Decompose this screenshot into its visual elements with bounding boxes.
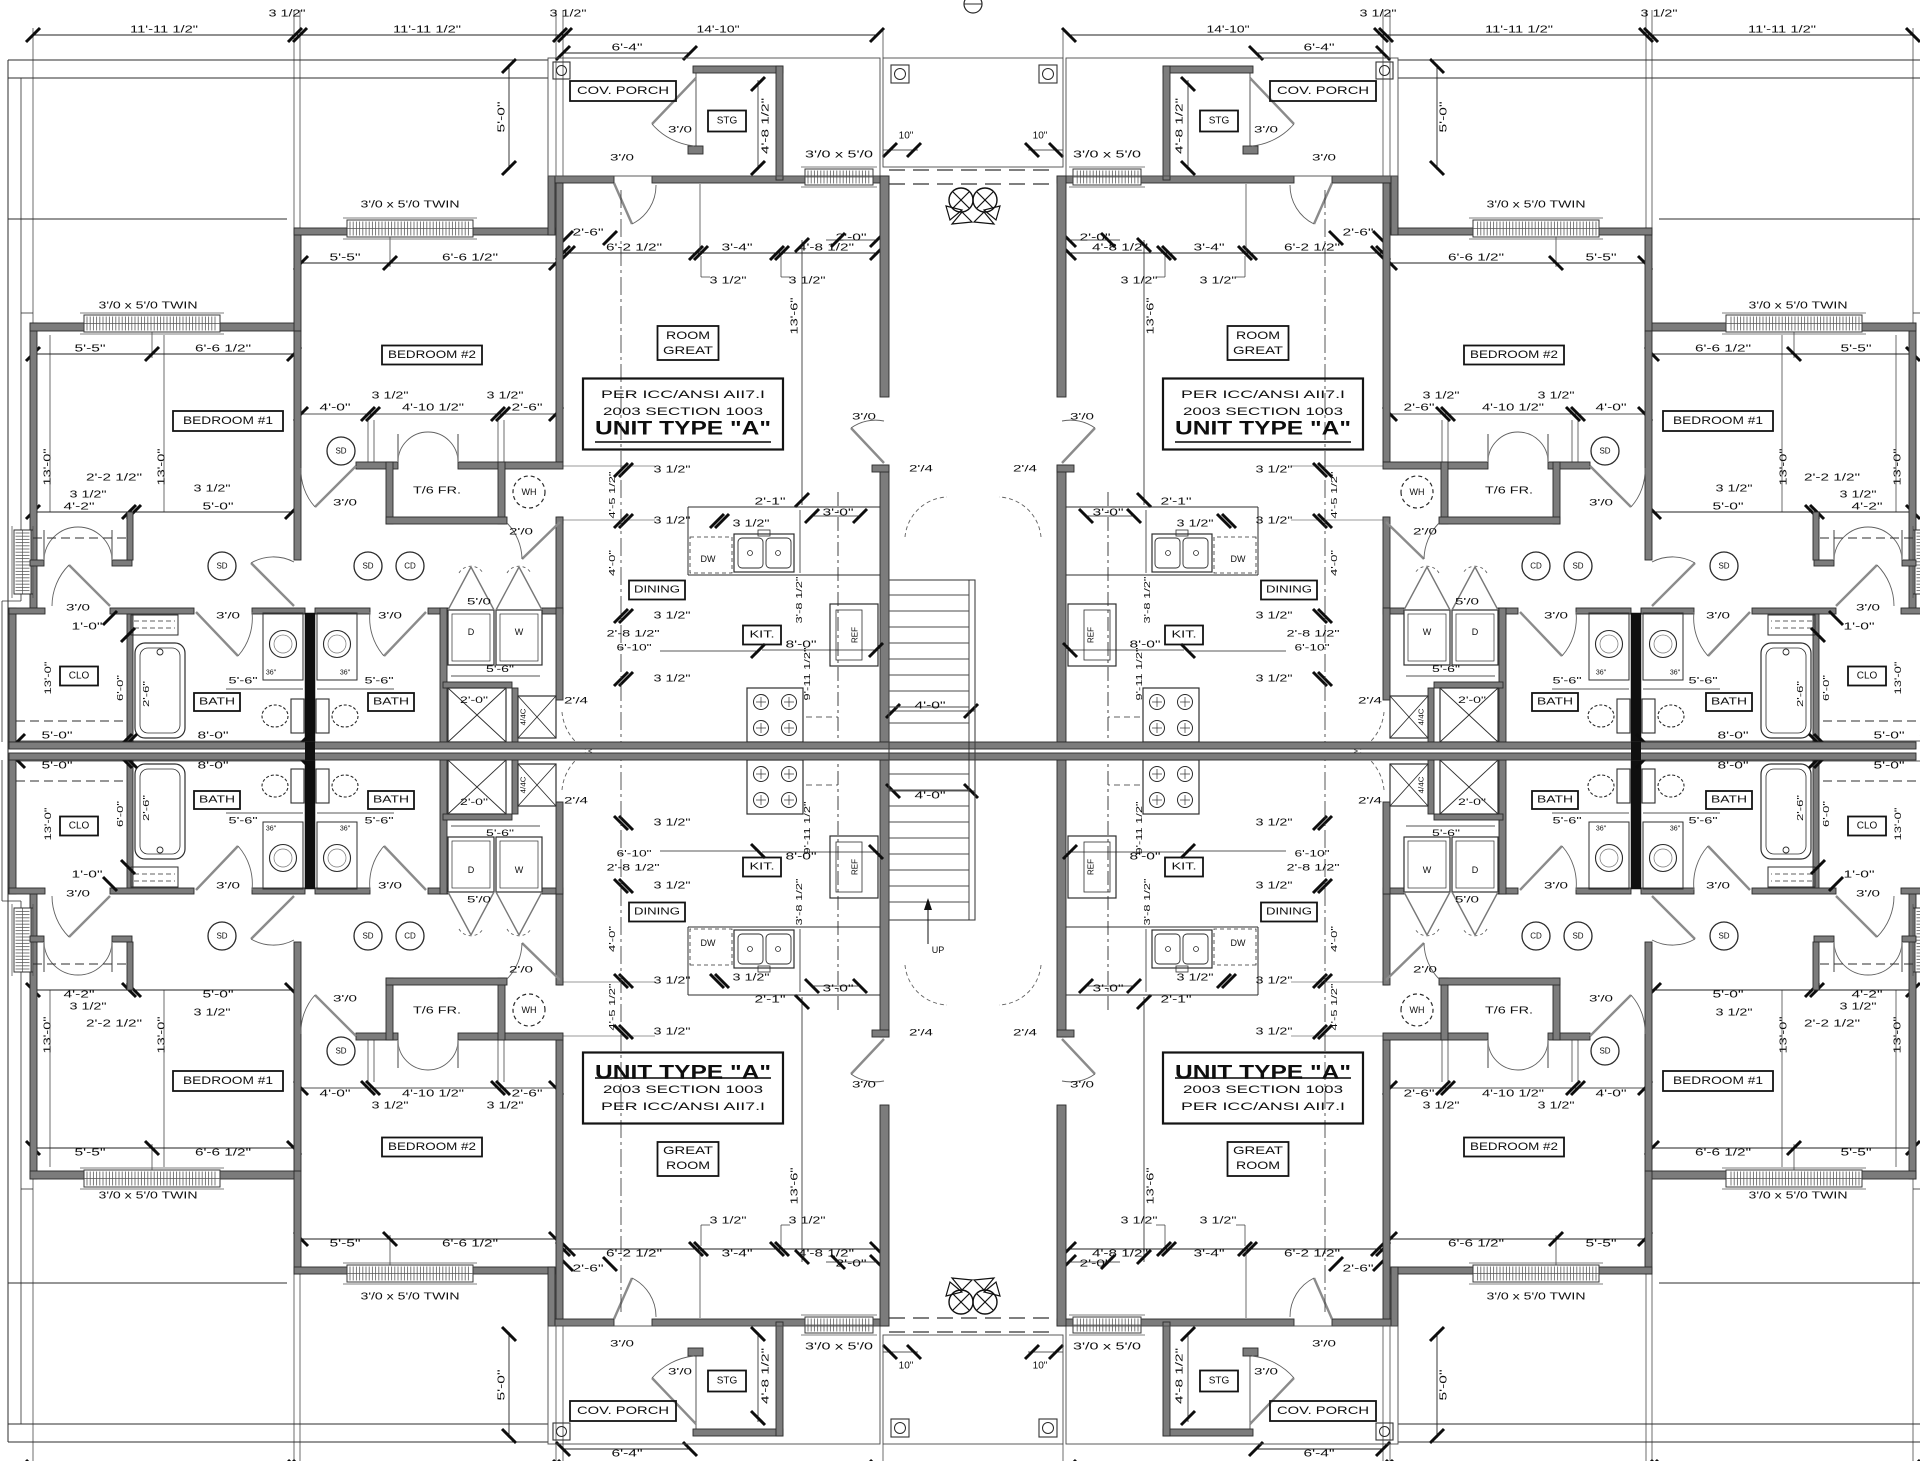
svg-text:GREAT: GREAT: [663, 345, 713, 357]
svg-text:2003 SECTION 1003: 2003 SECTION 1003: [1183, 1084, 1343, 1096]
svg-text:13'-0": 13'-0": [43, 808, 53, 841]
svg-text:3 1/2": 3 1/2": [654, 516, 692, 527]
svg-text:DW: DW: [701, 938, 716, 948]
svg-text:BATH: BATH: [373, 697, 409, 708]
svg-text:WH: WH: [1410, 487, 1425, 497]
svg-text:DINING: DINING: [634, 585, 680, 596]
svg-text:4'-5 1/2": 4'-5 1/2": [1329, 984, 1339, 1031]
svg-text:4'-8 1/2": 4'-8 1/2": [1175, 97, 1186, 154]
svg-text:2'-0": 2'-0": [460, 797, 488, 807]
svg-text:5'-6": 5'-6": [486, 828, 514, 838]
svg-text:3 1/2": 3 1/2": [1256, 976, 1294, 987]
svg-text:5'-5": 5'-5": [1586, 1239, 1618, 1250]
svg-text:3 1/2": 3 1/2": [194, 484, 232, 495]
svg-text:3'/0: 3'/0: [216, 881, 240, 892]
svg-text:3 1/2": 3 1/2": [1256, 516, 1294, 527]
svg-text:SD: SD: [362, 562, 373, 571]
svg-text:5'-5": 5'-5": [1841, 1148, 1873, 1159]
svg-text:3'/0: 3'/0: [852, 1080, 876, 1091]
svg-text:2'-6": 2'-6": [1343, 228, 1375, 239]
svg-text:5'-6": 5'-6": [486, 664, 514, 674]
svg-text:3'-0": 3'-0": [823, 984, 855, 995]
svg-text:8'-0": 8'-0": [1718, 761, 1750, 772]
svg-text:3 1/2": 3 1/2": [1256, 674, 1294, 685]
svg-text:3 1/2": 3 1/2": [487, 391, 525, 402]
svg-text:ROOM: ROOM: [1236, 330, 1280, 342]
svg-text:3 1/2": 3 1/2": [1840, 490, 1878, 501]
svg-text:BEDROOM #2: BEDROOM #2: [1470, 349, 1558, 361]
svg-text:36": 36": [266, 826, 277, 833]
svg-text:11'-11 1/2": 11'-11 1/2": [1485, 25, 1554, 36]
svg-text:5'-0": 5'-0": [203, 502, 235, 513]
svg-text:SD: SD: [216, 932, 227, 941]
svg-text:3'/0: 3'/0: [852, 412, 876, 423]
svg-text:36": 36": [1670, 670, 1681, 677]
svg-text:2'-0": 2'-0": [1458, 695, 1486, 705]
svg-text:CLO: CLO: [69, 821, 90, 832]
svg-text:4'-0": 4'-0": [607, 550, 617, 576]
svg-text:36": 36": [340, 826, 351, 833]
svg-text:BATH: BATH: [1537, 697, 1573, 708]
svg-text:2'-0": 2'-0": [1080, 1259, 1112, 1270]
svg-text:3 1/2": 3 1/2": [372, 1101, 410, 1112]
svg-text:4'-8 1/2": 4'-8 1/2": [1175, 1347, 1186, 1404]
svg-text:13'-0": 13'-0": [157, 448, 168, 486]
svg-text:BEDROOM #1: BEDROOM #1: [1673, 1075, 1763, 1087]
svg-text:5'-5": 5'-5": [330, 1239, 362, 1250]
svg-text:3 1/2": 3 1/2": [1840, 1002, 1878, 1013]
svg-text:3 1/2": 3 1/2": [1641, 9, 1679, 20]
svg-text:2'-0": 2'-0": [460, 695, 488, 705]
svg-text:GREAT: GREAT: [1233, 345, 1283, 357]
svg-text:4'-10 1/2": 4'-10 1/2": [402, 403, 465, 414]
svg-text:4'-8 1/2": 4'-8 1/2": [761, 1347, 772, 1404]
svg-text:DINING: DINING: [634, 907, 680, 918]
svg-text:3'-0": 3'-0": [1093, 508, 1125, 519]
svg-text:5'-6": 5'-6": [1553, 816, 1582, 827]
svg-text:3 1/2": 3 1/2": [1423, 1101, 1461, 1112]
svg-text:4'-2": 4'-2": [64, 990, 96, 1001]
svg-text:UNIT TYPE "A": UNIT TYPE "A": [1175, 419, 1351, 440]
svg-text:BATH: BATH: [1711, 697, 1747, 708]
svg-text:WH: WH: [522, 487, 537, 497]
svg-text:6'-4": 6'-4": [612, 43, 644, 54]
svg-text:8'-0": 8'-0": [1130, 852, 1162, 863]
svg-text:2'/0: 2'/0: [1413, 527, 1437, 538]
svg-text:D: D: [1472, 865, 1479, 875]
svg-text:5'-0": 5'-0": [1713, 502, 1745, 513]
svg-text:6'-10": 6'-10": [1295, 643, 1330, 654]
svg-text:4'-5 1/2": 4'-5 1/2": [607, 984, 617, 1031]
svg-text:8'-0": 8'-0": [1718, 731, 1750, 742]
svg-text:4'-0": 4'-0": [915, 701, 947, 712]
svg-text:5'-5": 5'-5": [330, 253, 362, 264]
svg-text:3'/0: 3'/0: [1856, 603, 1880, 614]
svg-text:REF: REF: [1087, 859, 1096, 875]
svg-text:4'-2": 4'-2": [1852, 990, 1884, 1001]
svg-text:13'-0": 13'-0": [1893, 662, 1903, 695]
svg-text:2'-2 1/2": 2'-2 1/2": [86, 1019, 143, 1030]
svg-text:2'/4: 2'/4: [1358, 796, 1382, 807]
svg-text:2'/0: 2'/0: [509, 965, 533, 976]
svg-text:3'/0: 3'/0: [66, 889, 90, 900]
svg-text:W: W: [1423, 627, 1432, 637]
svg-text:5'/0: 5'/0: [1455, 895, 1479, 906]
svg-text:REF: REF: [851, 859, 860, 875]
svg-text:3 1/2": 3 1/2": [487, 1101, 525, 1112]
svg-text:13'-0": 13'-0": [157, 1016, 168, 1054]
svg-text:2'-2 1/2": 2'-2 1/2": [86, 473, 143, 484]
svg-text:3 1/2": 3 1/2": [70, 490, 108, 501]
svg-text:11'-11 1/2": 11'-11 1/2": [1748, 25, 1817, 36]
svg-text:COV. PORCH: COV. PORCH: [577, 1405, 669, 1417]
svg-text:13'-0": 13'-0": [1893, 448, 1904, 486]
svg-text:13'-6": 13'-6": [1146, 297, 1157, 335]
svg-text:10": 10": [1033, 1361, 1048, 1372]
svg-text:4/4C: 4/4C: [521, 777, 528, 794]
svg-text:2'-1": 2'-1": [1161, 995, 1193, 1006]
svg-text:3'/0: 3'/0: [1856, 889, 1880, 900]
svg-text:6'-0": 6'-0": [1821, 675, 1831, 701]
svg-text:3 1/2": 3 1/2": [1200, 1216, 1238, 1227]
svg-text:3'/0: 3'/0: [1589, 498, 1613, 509]
party wall: [9, 742, 1916, 749]
svg-text:DW: DW: [1231, 938, 1246, 948]
svg-text:11'-11 1/2": 11'-11 1/2": [393, 25, 462, 36]
svg-text:4'-5 1/2": 4'-5 1/2": [607, 472, 617, 519]
svg-text:4'-0": 4'-0": [1329, 926, 1339, 952]
svg-text:3'/0: 3'/0: [378, 881, 402, 892]
svg-text:2'-6": 2'-6": [141, 795, 151, 821]
svg-text:5'-6": 5'-6": [1432, 828, 1460, 838]
svg-text:3'/0 x 5'/0: 3'/0 x 5'/0: [805, 1342, 874, 1353]
svg-text:3 1/2": 3 1/2": [1256, 1027, 1294, 1038]
svg-text:6'-0": 6'-0": [115, 801, 125, 827]
svg-text:4'-10 1/2": 4'-10 1/2": [402, 1089, 465, 1100]
svg-text:DW: DW: [1231, 554, 1246, 564]
svg-text:3'/0 x 5'/0 TWIN: 3'/0 x 5'/0 TWIN: [1487, 1292, 1586, 1303]
svg-text:3'-0": 3'-0": [823, 508, 855, 519]
svg-text:3'/0: 3'/0: [1589, 994, 1613, 1005]
svg-text:3'/0: 3'/0: [1312, 1339, 1336, 1350]
svg-text:8'-0": 8'-0": [786, 852, 818, 863]
svg-text:SD: SD: [1718, 562, 1729, 571]
svg-text:5'-0": 5'-0": [497, 101, 508, 133]
svg-text:3 1/2": 3 1/2": [1423, 391, 1461, 402]
svg-text:4'-0": 4'-0": [1596, 403, 1628, 414]
stairs with treads: [889, 580, 975, 920]
svg-text:BEDROOM #1: BEDROOM #1: [183, 1075, 273, 1087]
svg-text:4'-5 1/2": 4'-5 1/2": [1329, 472, 1339, 519]
svg-text:STG: STG: [717, 1376, 738, 1387]
svg-text:3 1/2": 3 1/2": [733, 519, 771, 530]
svg-text:1'-0": 1'-0": [1844, 622, 1876, 633]
svg-text:4'-0": 4'-0": [320, 1089, 352, 1100]
svg-text:13'-0": 13'-0": [1893, 808, 1903, 841]
svg-text:T/6 FR.: T/6 FR.: [1485, 1006, 1533, 1017]
svg-text:13'-0": 13'-0": [1779, 448, 1790, 486]
svg-text:5'-6": 5'-6": [1432, 664, 1460, 674]
svg-text:BATH: BATH: [199, 697, 235, 708]
svg-text:6'-6 1/2": 6'-6 1/2": [195, 344, 252, 355]
svg-text:11'-11 1/2": 11'-11 1/2": [130, 25, 199, 36]
svg-text:BATH: BATH: [1537, 795, 1573, 806]
svg-text:COV. PORCH: COV. PORCH: [1277, 85, 1369, 97]
svg-text:3'/0 x 5'/0 TWIN: 3'/0 x 5'/0 TWIN: [1487, 200, 1586, 211]
svg-text:13'-0": 13'-0": [43, 1016, 54, 1054]
svg-text:3'/0: 3'/0: [1706, 881, 1730, 892]
svg-text:4'-0": 4'-0": [607, 926, 617, 952]
svg-text:6'-10": 6'-10": [617, 643, 652, 654]
svg-text:PER ICC/ANSI AII7.I: PER ICC/ANSI AII7.I: [1181, 1101, 1345, 1113]
svg-text:3'/0 x 5'/0 TWIN: 3'/0 x 5'/0 TWIN: [99, 301, 198, 312]
svg-text:ROOM: ROOM: [666, 330, 710, 342]
svg-text:UP: UP: [932, 945, 945, 955]
svg-text:DINING: DINING: [1266, 585, 1312, 596]
svg-text:3 1/2": 3 1/2": [789, 276, 827, 287]
svg-text:4'-8 1/2": 4'-8 1/2": [761, 97, 772, 154]
svg-text:36": 36": [266, 670, 277, 677]
svg-text:SD: SD: [1572, 932, 1583, 941]
svg-text:3'/0 x 5'/0 TWIN: 3'/0 x 5'/0 TWIN: [99, 1191, 198, 1202]
svg-text:T/6 FR.: T/6 FR.: [413, 1006, 461, 1017]
svg-text:3'/0: 3'/0: [610, 1339, 634, 1350]
svg-text:CD: CD: [404, 932, 416, 941]
svg-text:6'-10": 6'-10": [617, 849, 652, 860]
svg-text:3'/0: 3'/0: [1070, 1080, 1094, 1091]
svg-text:6'-6 1/2": 6'-6 1/2": [1448, 253, 1505, 264]
UP arrow: [927, 908, 929, 944]
svg-text:3 1/2": 3 1/2": [1716, 1008, 1754, 1019]
svg-text:2'-6": 2'-6": [1404, 1089, 1436, 1100]
svg-text:9'-11 1/2": 9'-11 1/2": [1134, 802, 1144, 855]
svg-text:3 1/2": 3 1/2": [372, 391, 410, 402]
svg-text:3'/0 x 5'/0: 3'/0 x 5'/0: [1073, 150, 1142, 161]
svg-text:SD: SD: [1718, 932, 1729, 941]
svg-text:UNIT TYPE "A": UNIT TYPE "A": [595, 1063, 771, 1084]
svg-text:KIT.: KIT.: [750, 630, 775, 641]
svg-text:13'-6": 13'-6": [1146, 1167, 1157, 1205]
svg-text:5'-0": 5'-0": [203, 990, 235, 1001]
svg-text:13'-0": 13'-0": [43, 448, 54, 486]
svg-text:3 1/2": 3 1/2": [654, 818, 692, 829]
svg-text:D: D: [468, 627, 475, 637]
svg-text:5'-0": 5'-0": [1439, 101, 1450, 133]
svg-text:BATH: BATH: [199, 795, 235, 806]
svg-text:2'-0": 2'-0": [1458, 797, 1486, 807]
svg-text:3 1/2": 3 1/2": [1177, 973, 1215, 984]
svg-text:PER ICC/ANSI AII7.I: PER ICC/ANSI AII7.I: [601, 389, 765, 401]
svg-text:COV. PORCH: COV. PORCH: [577, 85, 669, 97]
svg-text:3'/0: 3'/0: [1544, 881, 1568, 892]
svg-text:1'-0": 1'-0": [72, 622, 104, 633]
svg-text:3'/0: 3'/0: [1312, 153, 1336, 164]
svg-text:5'/0: 5'/0: [1455, 597, 1479, 608]
svg-text:3'/0: 3'/0: [668, 1367, 692, 1378]
svg-text:2003 SECTION 1003: 2003 SECTION 1003: [603, 1084, 763, 1096]
svg-text:4'-8 1/2": 4'-8 1/2": [798, 243, 855, 254]
svg-text:ROOM: ROOM: [666, 1160, 710, 1172]
svg-text:CD: CD: [1530, 932, 1542, 941]
svg-text:2'-2 1/2": 2'-2 1/2": [1804, 1019, 1861, 1030]
svg-text:3 1/2": 3 1/2": [1538, 391, 1576, 402]
svg-text:3 1/2": 3 1/2": [789, 1216, 827, 1227]
svg-text:GREAT: GREAT: [663, 1145, 713, 1157]
svg-text:3 1/2": 3 1/2": [1200, 276, 1238, 287]
svg-text:2'/4: 2'/4: [909, 464, 933, 475]
svg-text:3 1/2": 3 1/2": [550, 9, 588, 20]
svg-text:2'-1": 2'-1": [755, 497, 787, 508]
svg-text:UNIT TYPE "A": UNIT TYPE "A": [595, 419, 771, 440]
svg-text:KIT.: KIT.: [750, 862, 775, 873]
svg-text:KIT.: KIT.: [1172, 630, 1197, 641]
svg-text:T/6 FR.: T/6 FR.: [413, 486, 461, 497]
svg-text:2'-2 1/2": 2'-2 1/2": [1804, 473, 1861, 484]
svg-text:3 1/2": 3 1/2": [733, 973, 771, 984]
svg-text:5'-5": 5'-5": [1841, 344, 1873, 355]
svg-text:2'-6": 2'-6": [573, 1264, 605, 1275]
svg-text:3'/0 x 5'/0 TWIN: 3'/0 x 5'/0 TWIN: [1749, 1191, 1848, 1202]
svg-text:3'-4": 3'-4": [1194, 243, 1226, 254]
svg-text:2003 SECTION 1003: 2003 SECTION 1003: [603, 406, 763, 418]
svg-text:10": 10": [899, 131, 914, 142]
svg-text:6'-2 1/2": 6'-2 1/2": [1284, 243, 1341, 254]
svg-text:6'-6 1/2": 6'-6 1/2": [1448, 1239, 1505, 1250]
svg-text:3 1/2": 3 1/2": [269, 9, 307, 20]
svg-text:3 1/2": 3 1/2": [1256, 611, 1294, 622]
svg-text:2'-8 1/2": 2'-8 1/2": [607, 863, 660, 874]
svg-text:5'-0": 5'-0": [42, 731, 74, 742]
svg-text:3 1/2": 3 1/2": [1177, 519, 1215, 530]
svg-text:5'-6": 5'-6": [365, 676, 394, 687]
svg-text:14'-10": 14'-10": [1207, 25, 1251, 36]
svg-text:2'-8 1/2": 2'-8 1/2": [607, 629, 660, 640]
svg-text:5'-5": 5'-5": [75, 1148, 107, 1159]
svg-text:2'/4: 2'/4: [564, 796, 588, 807]
svg-text:3 1/2": 3 1/2": [1256, 465, 1294, 476]
svg-text:3 1/2": 3 1/2": [654, 976, 692, 987]
svg-text:3 1/2": 3 1/2": [654, 674, 692, 685]
svg-text:3'/0 x 5'/0 TWIN: 3'/0 x 5'/0 TWIN: [1749, 301, 1848, 312]
svg-text:5'-5": 5'-5": [1586, 253, 1618, 264]
svg-text:STG: STG: [1209, 116, 1230, 127]
svg-text:BEDROOM #1: BEDROOM #1: [183, 415, 273, 427]
svg-text:2'-0": 2'-0": [836, 233, 868, 244]
svg-text:6'-6 1/2": 6'-6 1/2": [195, 1148, 252, 1159]
svg-text:36": 36": [1670, 826, 1681, 833]
svg-text:13'-0": 13'-0": [1893, 1016, 1904, 1054]
svg-text:GREAT: GREAT: [1233, 1145, 1283, 1157]
svg-text:WH: WH: [1410, 1005, 1425, 1015]
svg-text:36": 36": [1596, 826, 1607, 833]
svg-text:REF: REF: [851, 627, 860, 643]
svg-text:SD: SD: [335, 447, 346, 456]
svg-text:SD: SD: [216, 562, 227, 571]
svg-text:CLO: CLO: [69, 671, 90, 682]
svg-text:3'/0: 3'/0: [1070, 412, 1094, 423]
svg-text:5'-6": 5'-6": [229, 816, 258, 827]
svg-text:3 1/2": 3 1/2": [1256, 818, 1294, 829]
svg-text:4'-2": 4'-2": [64, 502, 96, 513]
svg-text:W: W: [515, 865, 524, 875]
svg-text:PER ICC/ANSI AII7.I: PER ICC/ANSI AII7.I: [601, 1101, 765, 1113]
svg-text:10": 10": [1033, 131, 1048, 142]
svg-text:2'-6": 2'-6": [1795, 681, 1805, 707]
svg-text:5'-0": 5'-0": [1874, 761, 1906, 772]
svg-text:2'-6": 2'-6": [1795, 795, 1805, 821]
svg-text:BATH: BATH: [373, 795, 409, 806]
svg-text:5'-0": 5'-0": [1713, 990, 1745, 1001]
svg-text:5'-6": 5'-6": [365, 816, 394, 827]
svg-text:2'/4: 2'/4: [1358, 696, 1382, 707]
svg-text:STG: STG: [717, 116, 738, 127]
svg-text:3'/0: 3'/0: [66, 603, 90, 614]
svg-text:5'-6": 5'-6": [229, 676, 258, 687]
svg-text:4/4C: 4/4C: [1419, 709, 1426, 726]
svg-text:3'/0: 3'/0: [1254, 1367, 1278, 1378]
svg-text:5'/0: 5'/0: [467, 895, 491, 906]
svg-text:3'/0: 3'/0: [668, 125, 692, 136]
svg-text:5'/0: 5'/0: [467, 597, 491, 608]
svg-text:10": 10": [899, 1361, 914, 1372]
svg-text:3'/0: 3'/0: [1706, 611, 1730, 622]
svg-text:6'-6 1/2": 6'-6 1/2": [442, 1239, 499, 1250]
svg-text:3'/0: 3'/0: [378, 611, 402, 622]
svg-text:4'-0": 4'-0": [1596, 1089, 1628, 1100]
svg-text:5'-0": 5'-0": [42, 761, 74, 772]
svg-text:CD: CD: [404, 562, 416, 571]
svg-text:8'-0": 8'-0": [198, 761, 230, 772]
svg-text:4/4C: 4/4C: [521, 709, 528, 726]
svg-text:6'-2 1/2": 6'-2 1/2": [606, 243, 663, 254]
svg-text:9'-11 1/2": 9'-11 1/2": [802, 648, 812, 701]
svg-text:CD: CD: [1530, 562, 1542, 571]
svg-text:3 1/2": 3 1/2": [1538, 1101, 1576, 1112]
svg-text:SD: SD: [1572, 562, 1583, 571]
svg-text:2'-6": 2'-6": [573, 228, 605, 239]
svg-text:5'-5": 5'-5": [75, 344, 107, 355]
svg-text:13'-0": 13'-0": [1779, 1016, 1790, 1054]
svg-text:2'-6": 2'-6": [512, 1089, 544, 1100]
svg-text:3'-4": 3'-4": [722, 1249, 754, 1260]
svg-text:2'/4: 2'/4: [564, 696, 588, 707]
svg-text:6'-6 1/2": 6'-6 1/2": [1695, 1148, 1752, 1159]
svg-text:COV. PORCH: COV. PORCH: [1277, 1405, 1369, 1417]
svg-text:6'-6 1/2": 6'-6 1/2": [442, 253, 499, 264]
svg-text:BEDROOM #2: BEDROOM #2: [1470, 1141, 1558, 1153]
svg-text:8'-0": 8'-0": [198, 731, 230, 742]
svg-text:CLO: CLO: [1857, 821, 1878, 832]
svg-text:W: W: [1423, 865, 1432, 875]
svg-text:3 1/2": 3 1/2": [710, 276, 748, 287]
svg-text:3'-8 1/2": 3'-8 1/2": [794, 577, 804, 624]
svg-text:6'-10": 6'-10": [1295, 849, 1330, 860]
svg-text:6'-6 1/2": 6'-6 1/2": [1695, 344, 1752, 355]
svg-text:9'-11 1/2": 9'-11 1/2": [802, 802, 812, 855]
svg-text:3'/0 x 5'/0 TWIN: 3'/0 x 5'/0 TWIN: [361, 200, 460, 211]
svg-text:2'-0": 2'-0": [836, 1259, 868, 1270]
svg-text:3'/0: 3'/0: [1254, 125, 1278, 136]
svg-text:6'-0": 6'-0": [115, 675, 125, 701]
svg-text:3 1/2": 3 1/2": [194, 1008, 232, 1019]
svg-text:WH: WH: [522, 1005, 537, 1015]
svg-text:13'-0": 13'-0": [43, 662, 53, 695]
svg-text:5'-0": 5'-0": [497, 1369, 508, 1401]
svg-text:2'/4: 2'/4: [1013, 464, 1037, 475]
svg-text:3'-4": 3'-4": [1194, 1249, 1226, 1260]
svg-text:4'-2": 4'-2": [1852, 502, 1884, 513]
svg-text:4'-10 1/2": 4'-10 1/2": [1482, 403, 1545, 414]
